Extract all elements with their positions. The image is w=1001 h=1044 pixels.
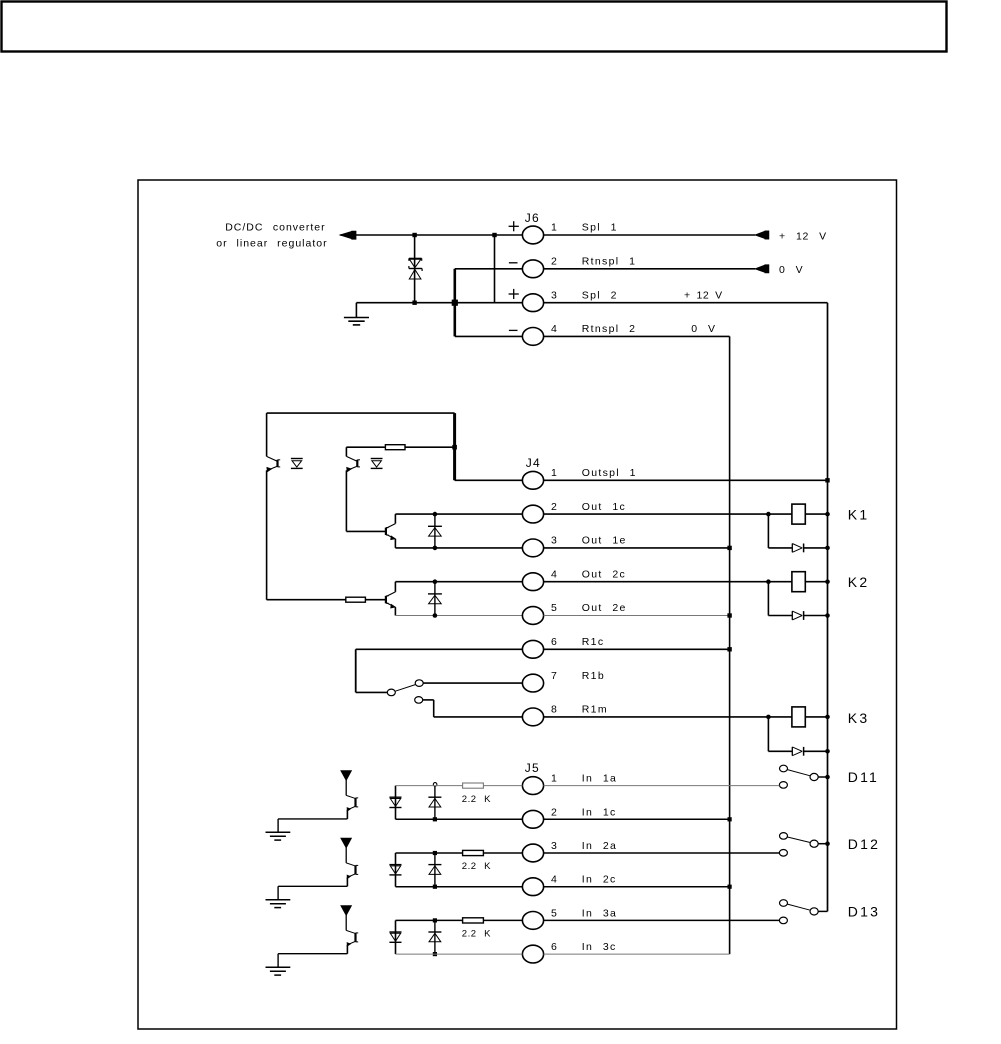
relay K3 coil junction [766, 715, 771, 720]
wire In 3c to Rtnspl2 bus corner [544, 953, 730, 955]
junction diode 3 top [433, 918, 437, 922]
wire R1m stub [423, 699, 434, 701]
wire Out2e row left [395, 615, 522, 617]
J6 pin 3 polarity sign [509, 293, 519, 295]
wire coil row K3 [768, 716, 792, 718]
svg-text:8: 8 [551, 704, 558, 716]
wire Out1e to Rtnspl2 bus [544, 547, 730, 549]
svg-text:3: 3 [551, 535, 558, 547]
wire J6-2 to 0V arrow [544, 268, 756, 270]
wire left LED column [266, 413, 268, 456]
svg-text:In 1c: In 1c [582, 806, 617, 818]
junction diode 2 top [433, 851, 437, 855]
wire In 2c to Rtnspl2 bus [544, 886, 730, 888]
svg-text:Spl 1: Spl 1 [582, 222, 618, 234]
switch D11 upper contact [780, 765, 788, 772]
svg-text:R1b: R1b [582, 670, 605, 682]
junction diode 1 top [433, 783, 437, 787]
svg-text:In 2c: In 2c [582, 874, 617, 886]
svg-text:or linear regulator: or linear regulator [216, 238, 327, 250]
svg-text:Out 1c: Out 1c [582, 501, 626, 513]
svg-text:0 V: 0 V [779, 264, 803, 276]
switch D11 lower contact [779, 782, 787, 789]
power arrow 0V [755, 265, 765, 272]
connector J5 pin 5 circle [522, 912, 543, 930]
TVS diode (bidirectional zener) across supply [414, 235, 416, 303]
resistor R (opto2 collector) [385, 445, 405, 450]
svg-text:1: 1 [551, 222, 558, 234]
svg-text:2.2 K: 2.2 K [462, 861, 491, 872]
wire In 3a to switch contact [544, 919, 780, 921]
svg-text:2.2 K: 2.2 K [462, 794, 491, 805]
svg-text:In 3c: In 3c [582, 941, 617, 953]
svg-text:D11: D11 [848, 769, 879, 785]
relay contact R1 throw b [415, 680, 423, 687]
wire In 3a row (top) [396, 919, 463, 921]
svg-text:Out 2e: Out 2e [582, 602, 627, 614]
J6 pin 2 polarity sign [509, 262, 518, 264]
wire D11 to bus [818, 776, 827, 778]
svg-text:1: 1 [551, 467, 558, 479]
svg-text:J5: J5 [525, 761, 540, 775]
wire ground/Spl2 row [356, 302, 522, 304]
optocoupler U2 photodiode symbol [371, 458, 383, 460]
resistor 2.2K input 3 [463, 918, 484, 923]
net bus Rtnspl2 (0V) vertical [729, 336, 731, 954]
relay K2 coil [792, 572, 805, 592]
wire Rtnspl1 row left [455, 268, 523, 270]
optocoupler U1 photodiode symbol [291, 458, 303, 460]
reverse protection diode 2 (pointing up) [434, 853, 436, 887]
transistor Q1 (output 1) [385, 528, 387, 535]
svg-text:In 1a: In 1a [582, 773, 617, 785]
junction diode 1 bottom [433, 817, 437, 821]
relay contact R1 blade [395, 685, 415, 692]
ground symbol input 1 [277, 819, 279, 832]
wire R1c to Rtnspl2 bus [544, 648, 730, 650]
wire R1m to relay K3 [544, 716, 769, 718]
connector J4 pin 8 circle [522, 708, 543, 726]
wire R1c row left with branch down [356, 648, 523, 650]
wire Out2c to relay K2 [544, 581, 769, 583]
svg-text:2.2 K: 2.2 K [462, 929, 491, 940]
wire output common top [267, 412, 455, 414]
resistor 2.2K input 1 [463, 783, 484, 788]
wire K1 diode branch [767, 514, 769, 548]
resistor R (Q2 base) [346, 597, 366, 602]
switch D12 common contact [810, 840, 818, 847]
flyback diode of K2 [791, 611, 793, 620]
svg-text:7: 7 [551, 670, 558, 682]
wire In 1c to Rtnspl2 bus [544, 818, 730, 820]
reverse protection diode 3 (pointing up) [434, 920, 436, 954]
connector J6 pin 3 circle [522, 294, 543, 312]
svg-text:Out 2c: Out 2c [582, 568, 626, 580]
wire D12 to bus [818, 843, 827, 845]
relay contact R1 throw m [415, 697, 423, 704]
wire In 3c row (bottom) [396, 953, 523, 955]
svg-text:4: 4 [551, 323, 558, 335]
wire J6-1 to +12V arrow [544, 234, 756, 236]
wire Out2c row left [395, 581, 522, 583]
relay K1 coil [792, 504, 805, 524]
J6 pin 1 polarity sign [509, 225, 519, 227]
connector J5 pin 2 circle [522, 810, 543, 828]
svg-text:5: 5 [551, 602, 558, 614]
wire K2 diode branch [767, 582, 769, 616]
junction Rtnspl branch to ground wire [452, 300, 458, 306]
opto LED diode 2 (pointing down) [389, 864, 401, 866]
junction on Spl1 at TVS [412, 233, 416, 237]
connector J4 pin 1 circle [522, 471, 543, 489]
input diode network 3 left vertical [395, 920, 397, 954]
svg-text:D13: D13 [848, 904, 880, 920]
svg-text:K3: K3 [848, 710, 870, 726]
connector J6 pin 1 circle [522, 226, 543, 244]
optocoupler U3 input LED arrow [341, 771, 351, 780]
relay contact R1 pole [387, 689, 395, 696]
power arrow to DC/DC converter (left) [340, 232, 351, 239]
wire emitter to ground 3 [278, 953, 347, 955]
wire In 1c row (bottom) [396, 818, 523, 820]
relay K3 coil [792, 707, 805, 727]
svg-text:Rtnspl 2: Rtnspl 2 [582, 323, 636, 335]
optocoupler U4 phototransistor [346, 863, 355, 866]
svg-text:4: 4 [551, 568, 558, 580]
wire Spl1 row left [340, 234, 522, 236]
wire R1 pole stub [356, 691, 388, 693]
svg-text:Rtnspl 1: Rtnspl 1 [582, 256, 636, 268]
connector J6 pin 4 circle [522, 328, 543, 346]
wire Out1c to relay K1 [544, 513, 769, 515]
svg-text:6: 6 [551, 941, 558, 953]
opto LED diode 3 (pointing down) [389, 931, 401, 933]
wire Outspl1 vertical (thick) [453, 413, 456, 480]
svg-text:In 2a: In 2a [582, 840, 617, 852]
optocoupler U4 input LED arrow [341, 838, 351, 847]
wire Out2e to Rtnspl2 bus [544, 615, 730, 617]
junctions K1 on bus [825, 512, 830, 517]
svg-text:R1c: R1c [582, 636, 605, 648]
wire In 1a to switch contact [544, 785, 780, 787]
connector J4 pin 4 circle [522, 573, 543, 591]
connector J5 pin 3 circle [522, 844, 543, 862]
connector J5 pin 4 circle [522, 878, 543, 896]
wire U2 emitter to Q1 base [346, 530, 385, 532]
wire K3 diode branch [767, 717, 769, 751]
connector J5 pin 6 circle [522, 945, 543, 963]
connector J4 pin 2 circle [522, 505, 543, 523]
junctions K2 on bus [825, 579, 830, 584]
power arrow +12V [755, 231, 765, 238]
optocoupler U5 input LED arrow [341, 906, 351, 915]
svg-text:J4: J4 [526, 456, 541, 470]
connector J5 pin 1 circle [522, 777, 543, 795]
optocoupler U1 phototransistor [267, 456, 277, 461]
wire coil row K2 [768, 581, 792, 583]
svg-text:5: 5 [551, 907, 558, 919]
relay K2 coil junction [766, 579, 771, 584]
switch D12 lower contact [779, 850, 787, 857]
junction diode 2 bottom [433, 885, 437, 889]
svg-text:3: 3 [551, 289, 558, 301]
ground symbol input 3 [277, 954, 279, 967]
svg-text:2: 2 [551, 806, 558, 818]
junction TVS to ground wire [412, 301, 416, 305]
switch D11 common contact [810, 773, 818, 780]
input diode network 2 left vertical [395, 853, 397, 887]
wire R1b row [423, 682, 522, 684]
transistor Q2 (output 2) [385, 596, 387, 603]
svg-text:Outspl 1: Outspl 1 [582, 467, 637, 479]
opto LED diode 1 (pointing down) [389, 796, 401, 798]
wire D13 to bus [818, 910, 827, 912]
svg-text:Out 1e: Out 1e [582, 535, 627, 547]
optocoupler U3 phototransistor [346, 795, 355, 798]
svg-text:6: 6 [551, 636, 558, 648]
flyback diode of K1 [791, 544, 793, 553]
svg-text:4: 4 [551, 874, 558, 886]
resistor 2.2K input 2 [463, 850, 484, 855]
svg-text:0 V: 0 V [691, 323, 715, 335]
switch D13 blade [787, 904, 810, 910]
switch D13 lower contact [779, 917, 787, 924]
svg-text:2: 2 [551, 501, 558, 513]
connector J4 pin 6 circle [522, 640, 543, 658]
svg-text:+ 12 V: + 12 V [684, 289, 723, 301]
wire coil row K1 [768, 513, 792, 515]
wire Out1e row left [395, 547, 522, 549]
switch D12 upper contact [780, 833, 788, 840]
svg-text:Spl 2: Spl 2 [582, 289, 618, 301]
wire In 2a row (top) [396, 852, 463, 854]
svg-text:1: 1 [551, 773, 558, 785]
flyback diode of K3 [791, 747, 793, 756]
svg-text:J6: J6 [525, 211, 540, 225]
net bus Spl2 (+12V) vertical [827, 303, 829, 912]
connector J4 pin 7 circle [522, 674, 543, 692]
wire Rtnspl1 vertical branch [453, 269, 456, 337]
connector J4 pin 3 circle [522, 539, 543, 557]
wire Rtnspl2 row left [455, 335, 523, 337]
wire R1m row [434, 716, 523, 718]
wire Out1c row left [395, 513, 522, 515]
wire base row Q2 with resistor [267, 599, 346, 601]
svg-text:D12: D12 [848, 836, 880, 852]
flyback diode D2 (across Q2) [434, 582, 436, 616]
wire emitter to ground 1 [278, 818, 347, 820]
svg-text:R1m: R1m [582, 704, 608, 716]
switch D11 blade [787, 770, 810, 776]
J6 pin 4 polarity sign [509, 329, 518, 331]
junction resistor wire to Outspl1 branch [452, 445, 457, 450]
wire opto2 collector / resistor row [346, 446, 385, 448]
svg-text:+ 12 V: + 12 V [779, 230, 827, 242]
wire In 2a to switch contact [544, 852, 780, 854]
wire emitter to ground 2 [278, 885, 347, 887]
switch D13 common contact [810, 908, 818, 915]
ground symbol (supply) [355, 303, 357, 318]
wire In 2c row (bottom) [396, 886, 523, 888]
svg-text:3: 3 [551, 840, 558, 852]
input diode network 1 left vertical [395, 786, 397, 820]
switch D13 upper contact [780, 900, 788, 907]
connector J6 pin 2 circle [522, 260, 543, 278]
svg-text:K1: K1 [848, 507, 870, 523]
switch D12 blade [787, 837, 810, 843]
ground symbol input 2 [277, 886, 279, 899]
wire Outspl1 to Spl2 bus [544, 479, 828, 481]
junction diode 3 bottom [433, 952, 437, 956]
junction on Spl1 at Spl2 branch [492, 233, 496, 237]
connector J4 pin 5 circle [522, 607, 543, 625]
svg-text:2: 2 [551, 256, 558, 268]
wire Outspl1 row [455, 479, 523, 481]
optocoupler U2 phototransistor [345, 447, 347, 456]
svg-text:K2: K2 [848, 574, 870, 590]
svg-text:DC/DC converter: DC/DC converter [225, 222, 325, 234]
wire J6-3 Spl2 to bus [544, 302, 828, 304]
relay K1 coil junction [766, 512, 771, 517]
wire In 1a row (top) [396, 785, 463, 787]
flyback diode D1 (across Q1) [434, 514, 436, 548]
junctions K3 on bus [825, 715, 830, 720]
svg-text:In 3a: In 3a [582, 907, 617, 919]
wire Spl2 vertical branch [494, 235, 496, 303]
optocoupler U5 phototransistor [346, 930, 355, 933]
reverse protection diode 1 (pointing up) [434, 786, 436, 820]
wire J6-4 Rtnspl2 to bus [544, 335, 730, 337]
